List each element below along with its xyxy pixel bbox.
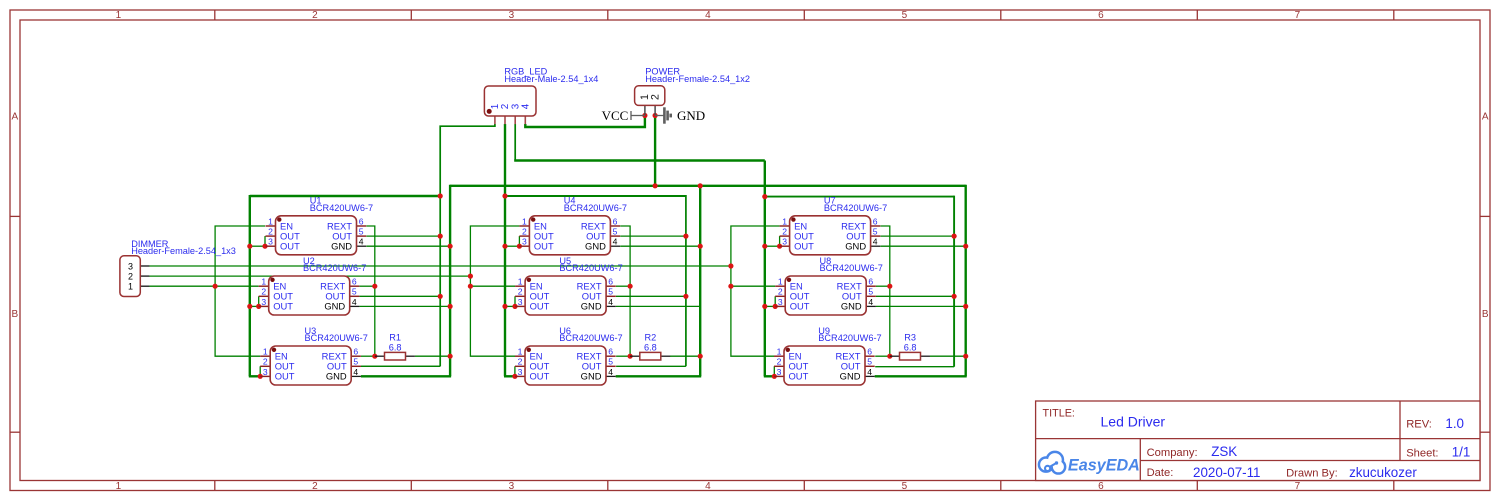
svg-text:6: 6 bbox=[353, 347, 358, 357]
wire R3 to col3 GND vertical bbox=[930, 355, 966, 357]
wire U3 REXT to R1 junction bbox=[361, 355, 375, 357]
wire net DIM2 col2 EN vertical bbox=[470, 226, 519, 356]
svg-text:2: 2 bbox=[263, 357, 268, 367]
junction at (764.8,306.4) bbox=[762, 304, 767, 309]
junction at (450.1,356.2) bbox=[448, 354, 453, 359]
svg-text:3: 3 bbox=[263, 367, 268, 377]
op-amp/driver IC U4 BCR420UW6-7 bbox=[519, 196, 627, 255]
svg-text:BCR420UW6-7: BCR420UW6-7 bbox=[303, 263, 366, 273]
wire net DIM3 from DIMMER pin3 bbox=[149, 265, 731, 267]
power flag VCC bbox=[602, 108, 645, 123]
svg-text:4: 4 bbox=[867, 367, 872, 377]
wire net LED2 corner to U6 pin5 bbox=[616, 365, 686, 367]
svg-text:3: 3 bbox=[509, 481, 515, 492]
junction at (889.8,286.2) bbox=[887, 284, 892, 289]
wire U4 GND pin to col2 GND bus bbox=[620, 245, 700, 247]
wire U5 pin3 to OUT bus bbox=[505, 305, 515, 307]
svg-text:GND: GND bbox=[331, 241, 352, 252]
wire U4 pin3 to OUT bus bbox=[505, 245, 519, 247]
svg-text:7: 7 bbox=[1295, 481, 1301, 492]
op-amp/driver IC U9 BCR420UW6-7 bbox=[774, 326, 882, 385]
wire U5 REXT to R2 vertical bbox=[616, 285, 630, 287]
svg-text:2: 2 bbox=[778, 287, 783, 297]
svg-text:7: 7 bbox=[1295, 10, 1301, 21]
svg-text:OUT: OUT bbox=[275, 371, 295, 382]
junction at (249.8,246.2) bbox=[247, 244, 252, 249]
svg-text:3: 3 bbox=[518, 297, 523, 307]
svg-text:1: 1 bbox=[777, 347, 782, 357]
junction at (440.2,296.3) bbox=[438, 294, 443, 299]
svg-text:OUT: OUT bbox=[534, 241, 554, 252]
svg-text:2: 2 bbox=[522, 227, 527, 237]
junction at (889.8,356.2) bbox=[887, 354, 892, 359]
wire U6 pin2-pin3 tie bbox=[514, 366, 516, 376]
wire net GND col1 vertical bbox=[449, 185, 451, 376]
wire net LED1 col1 OUT bus to U3 bracket bbox=[249, 375, 260, 377]
svg-text:Header-Male-2.54_1x4: Header-Male-2.54_1x4 bbox=[504, 74, 598, 84]
op-amp/driver IC U7 BCR420UW6-7 bbox=[780, 196, 888, 255]
svg-text:GND: GND bbox=[841, 301, 862, 312]
svg-text:2: 2 bbox=[518, 287, 523, 297]
svg-text:5: 5 bbox=[359, 227, 364, 237]
junction at (775.2,306.4) bbox=[773, 304, 778, 309]
svg-text:OUT: OUT bbox=[789, 371, 809, 382]
svg-text:6.8: 6.8 bbox=[389, 343, 402, 353]
svg-text:Header-Female-2.54_1x3: Header-Female-2.54_1x3 bbox=[131, 246, 236, 256]
svg-text:6.8: 6.8 bbox=[904, 343, 917, 353]
wire net DIM1 col1 EN vertical bbox=[215, 226, 265, 356]
svg-text:GND: GND bbox=[581, 371, 602, 382]
svg-text:1: 1 bbox=[261, 277, 266, 287]
svg-text:4: 4 bbox=[608, 367, 613, 377]
connector DIMMER Header-Female-2.54_1x3 bbox=[120, 239, 236, 296]
junction at (515.0,306.4) bbox=[512, 304, 517, 309]
svg-text:5: 5 bbox=[902, 10, 908, 21]
svg-text:BCR420UW6-7: BCR420UW6-7 bbox=[305, 333, 368, 343]
wire net LED3 from RGB_LED pin3 down bbox=[514, 124, 516, 161]
svg-text:Led Driver: Led Driver bbox=[1101, 413, 1166, 429]
svg-text:5: 5 bbox=[608, 357, 613, 367]
wire U7 pin5 to LED3 vertical bbox=[880, 235, 954, 237]
wire net LED2 from RGB_LED pin2 down bbox=[504, 124, 506, 376]
wire net GND main bus bbox=[450, 185, 966, 187]
svg-text:GND: GND bbox=[326, 371, 347, 382]
svg-text:6: 6 bbox=[613, 216, 618, 226]
wire U5 pin5 to LED2 vertical bbox=[616, 295, 686, 297]
svg-text:Company:: Company: bbox=[1147, 447, 1198, 459]
junction at (505.0,196.0) bbox=[502, 193, 507, 198]
wire net LED1 top link col1 bbox=[250, 195, 441, 197]
wire net LED1 corner to U3 pin5 bbox=[361, 365, 441, 367]
svg-text:1: 1 bbox=[522, 216, 527, 226]
svg-text:2020-07-11: 2020-07-11 bbox=[1193, 465, 1261, 480]
svg-text:1: 1 bbox=[782, 216, 787, 226]
wire U7 REXT to R3 vertical bbox=[880, 226, 889, 356]
svg-text:4: 4 bbox=[873, 237, 878, 247]
junction at (514.9,376.3) bbox=[512, 374, 517, 379]
junction at (519.4,246.2) bbox=[517, 244, 522, 249]
wire net GND col3 bottom to U9 GND pin bbox=[875, 375, 967, 377]
svg-text:6: 6 bbox=[359, 216, 364, 226]
svg-text:GND: GND bbox=[581, 301, 602, 312]
svg-text:6: 6 bbox=[608, 347, 613, 357]
wire net GND drop from POWER pin2 bbox=[654, 116, 656, 186]
wire U7 pin2-pin3 tie bbox=[779, 236, 781, 246]
svg-text:5: 5 bbox=[868, 287, 873, 297]
svg-text:B: B bbox=[11, 309, 18, 320]
svg-text:6: 6 bbox=[1098, 481, 1104, 492]
svg-text:1: 1 bbox=[128, 282, 133, 292]
svg-text:4: 4 bbox=[359, 237, 364, 247]
svg-text:OUT: OUT bbox=[530, 301, 550, 312]
svg-text:GND: GND bbox=[324, 301, 345, 312]
svg-text:6: 6 bbox=[868, 277, 873, 287]
svg-text:6: 6 bbox=[352, 277, 357, 287]
wire U2 GND pin to col1 GND bus bbox=[360, 305, 451, 307]
svg-text:OUT: OUT bbox=[794, 241, 814, 252]
svg-text:BCR420UW6-7: BCR420UW6-7 bbox=[564, 203, 627, 213]
junction at (764.8,246.2) bbox=[762, 244, 767, 249]
wire net DIM1 from DIMMER pin1 to U2 EN bbox=[149, 285, 259, 287]
wire net LED2 top link col2 bbox=[505, 195, 686, 197]
wire net GND col3 vertical bbox=[965, 185, 967, 376]
svg-text:2: 2 bbox=[649, 94, 661, 100]
svg-text:OUT: OUT bbox=[790, 301, 810, 312]
wire U1 pin2-pin3 tie bbox=[264, 236, 266, 246]
wire U2 pin5 to LED1 vertical bbox=[360, 295, 441, 297]
junction at (700.2,185.8) bbox=[698, 183, 703, 188]
svg-text:Sheet:: Sheet: bbox=[1406, 448, 1438, 460]
svg-text:Drawn By:: Drawn By: bbox=[1286, 467, 1338, 479]
junction at (655.1,115.5) bbox=[653, 113, 658, 118]
junction at (260.2,376.3) bbox=[258, 374, 263, 379]
svg-text:2: 2 bbox=[782, 227, 787, 237]
op-amp/driver IC U5 BCR420UW6-7 bbox=[515, 256, 623, 315]
svg-text:3: 3 bbox=[518, 367, 523, 377]
wire U1 REXT to R1 vertical bbox=[366, 226, 375, 356]
op-amp/driver IC U3 BCR420UW6-7 bbox=[260, 326, 368, 385]
connector RGB_LED Header-Male-2.54_1x4 bbox=[484, 67, 598, 125]
wire net LED3 horizontal link bbox=[514, 159, 765, 161]
svg-text:2: 2 bbox=[268, 227, 273, 237]
svg-text:4: 4 bbox=[608, 297, 613, 307]
wire net LED3 corner to U9 pin5 bbox=[875, 366, 954, 368]
svg-text:4: 4 bbox=[353, 367, 358, 377]
wire U6 REXT to R2 junction bbox=[616, 355, 630, 357]
junction at (644.9,115.5) bbox=[642, 113, 647, 118]
wire net DIM3 col3 EN vertical bbox=[731, 226, 780, 356]
svg-text:1: 1 bbox=[518, 277, 523, 287]
wire U7 pin3 to OUT bus bbox=[765, 245, 780, 247]
wire net LED2 corner to U6 bracket bbox=[504, 375, 515, 377]
svg-text:5: 5 bbox=[873, 227, 878, 237]
junction at (730.9,286.2) bbox=[728, 284, 733, 289]
svg-text:4: 4 bbox=[705, 10, 711, 21]
svg-text:2: 2 bbox=[312, 10, 318, 21]
wire net GND col1 bottom to U3 GND pin bbox=[361, 375, 451, 377]
svg-text:ZSK: ZSK bbox=[1211, 444, 1237, 459]
wire U8 pin2-pin3 tie bbox=[774, 296, 776, 306]
svg-text:4: 4 bbox=[352, 297, 357, 307]
junction at (630.1,286.2) bbox=[628, 284, 633, 289]
wire net LED1 col1 OUT bus vertical bbox=[249, 195, 251, 376]
junction at (685.9,296.3) bbox=[683, 294, 688, 299]
resistor R1 6.8 bbox=[375, 333, 415, 360]
svg-text:3: 3 bbox=[268, 237, 273, 247]
connector POWER Header-Female-2.54_1x2 bbox=[635, 67, 750, 116]
wire net DIM3 branch to U8 EN bbox=[731, 285, 775, 287]
svg-text:4: 4 bbox=[868, 297, 873, 307]
svg-text:2: 2 bbox=[518, 357, 523, 367]
junction at (774.3,376.3) bbox=[772, 374, 777, 379]
wire U7 GND pin to col3 GND bus bbox=[880, 245, 965, 247]
wire U4 REXT to R2 vertical bbox=[620, 226, 630, 356]
svg-text:Date:: Date: bbox=[1147, 467, 1174, 479]
junction at (630.1,356.2) bbox=[628, 354, 633, 359]
svg-text:3: 3 bbox=[777, 367, 782, 377]
wire U8 REXT to R3 vertical bbox=[876, 285, 890, 287]
junction at (764.8,196.6) bbox=[762, 194, 767, 199]
junction at (655.1,185.8) bbox=[653, 183, 658, 188]
junction at (779.6,246.2) bbox=[777, 244, 782, 249]
svg-text:5: 5 bbox=[353, 357, 358, 367]
svg-text:1: 1 bbox=[263, 347, 268, 357]
svg-text:GND: GND bbox=[840, 371, 861, 382]
wire net LED3 col3 pin5 vertical bbox=[953, 196, 955, 367]
svg-text:1.0: 1.0 bbox=[1445, 416, 1464, 431]
junction at (374.8,356.2) bbox=[372, 354, 377, 359]
wire net LED3 corner to U9 bracket bbox=[764, 375, 775, 377]
svg-text:zkucukozer: zkucukozer bbox=[1349, 465, 1417, 480]
svg-text:5: 5 bbox=[613, 227, 618, 237]
svg-text:A: A bbox=[1482, 112, 1489, 123]
svg-text:6: 6 bbox=[873, 216, 878, 226]
svg-text:TITLE:: TITLE: bbox=[1043, 408, 1075, 420]
svg-text:1: 1 bbox=[518, 347, 523, 357]
wire net VCC from RGB_LED pin4 to POWER pin1 bbox=[525, 116, 645, 128]
wire U1 GND pin to col1 GND bus bbox=[366, 245, 450, 247]
junction at (685.9,236.1) bbox=[683, 234, 688, 239]
wire U4 pin2-pin3 tie bbox=[518, 236, 520, 246]
svg-text:2: 2 bbox=[261, 287, 266, 297]
resistor R3 6.8 bbox=[890, 333, 930, 360]
svg-text:3: 3 bbox=[782, 237, 787, 247]
svg-text:GND: GND bbox=[845, 241, 866, 252]
svg-text:BCR420UW6-7: BCR420UW6-7 bbox=[820, 263, 883, 273]
junction at (954.1,296.3) bbox=[952, 294, 957, 299]
svg-text:6: 6 bbox=[608, 277, 613, 287]
junction at (450.1,246.2) bbox=[448, 244, 453, 249]
svg-text:4: 4 bbox=[705, 481, 711, 492]
junction at (265.0,246.2) bbox=[262, 244, 267, 249]
svg-text:5: 5 bbox=[902, 481, 908, 492]
svg-text:1: 1 bbox=[116, 10, 122, 21]
wire R2 to col2 GND vertical bbox=[670, 355, 700, 357]
junction at (470.4,286.2) bbox=[468, 284, 473, 289]
junction at (965.7,356.2) bbox=[963, 354, 968, 359]
junction at (470.4,276.1) bbox=[468, 274, 473, 279]
svg-text:3: 3 bbox=[509, 10, 515, 21]
svg-text:B: B bbox=[1482, 309, 1489, 320]
svg-text:BCR420UW6-7: BCR420UW6-7 bbox=[559, 263, 622, 273]
svg-text:6: 6 bbox=[867, 347, 872, 357]
wire U4 pin5 to LED2 vertical bbox=[620, 235, 686, 237]
svg-text:Header-Female-2.54_1x2: Header-Female-2.54_1x2 bbox=[645, 74, 750, 84]
svg-text:BCR420UW6-7: BCR420UW6-7 bbox=[824, 203, 887, 213]
svg-text:1: 1 bbox=[268, 216, 273, 226]
wire net DIM2 from DIMMER pin2 bbox=[149, 275, 470, 277]
resistor R2 6.8 bbox=[630, 333, 670, 360]
svg-text:OUT: OUT bbox=[280, 241, 300, 252]
svg-text:3: 3 bbox=[778, 297, 783, 307]
svg-text:R2: R2 bbox=[645, 333, 657, 343]
svg-text:1: 1 bbox=[116, 481, 122, 492]
svg-text:2: 2 bbox=[128, 271, 133, 281]
wire U2 pin2-pin3 tie bbox=[258, 296, 260, 306]
svg-text:4: 4 bbox=[613, 237, 618, 247]
svg-text:5: 5 bbox=[608, 287, 613, 297]
wire U2 REXT to R1 vertical bbox=[360, 285, 375, 287]
op-amp/driver IC U6 BCR420UW6-7 bbox=[515, 326, 623, 385]
svg-text:6: 6 bbox=[1098, 10, 1104, 21]
svg-text:GND: GND bbox=[677, 108, 705, 123]
svg-text:5: 5 bbox=[352, 287, 357, 297]
wire net LED1 from RGB_LED pin1 down-left bbox=[440, 124, 495, 366]
wire U1 pin5 to LED1 vertical bbox=[366, 235, 440, 237]
wire U1 pin3 to OUT bus bbox=[250, 245, 265, 247]
ground symbol GND bbox=[655, 107, 705, 123]
svg-text:A: A bbox=[11, 112, 18, 123]
svg-text:3: 3 bbox=[522, 237, 527, 247]
op-amp/driver IC U8 BCR420UW6-7 bbox=[775, 256, 883, 315]
op-amp/driver IC U2 BCR420UW6-7 bbox=[259, 256, 367, 315]
junction at (700.2,246.2) bbox=[698, 244, 703, 249]
svg-text:4: 4 bbox=[521, 103, 532, 109]
junction at (730.9,266.0) bbox=[728, 263, 733, 268]
svg-text:3: 3 bbox=[128, 261, 133, 271]
svg-text:R1: R1 bbox=[389, 333, 401, 343]
junction at (374.8,286.2) bbox=[372, 284, 377, 289]
svg-text:1/1: 1/1 bbox=[1452, 445, 1471, 460]
op-amp/driver IC U1 BCR420UW6-7 bbox=[266, 196, 374, 255]
wire U3 pin5 to LED1 vertical bbox=[361, 365, 440, 367]
wire U2 pin3 to OUT bus bbox=[250, 305, 259, 307]
svg-text:REV:: REV: bbox=[1406, 419, 1432, 431]
wire U9 pin2-pin3 tie bbox=[773, 366, 775, 376]
svg-text:R3: R3 bbox=[904, 333, 916, 343]
junction at (505.0,306.4) bbox=[502, 304, 507, 309]
svg-text:VCC: VCC bbox=[602, 108, 629, 123]
wire net GND col2 bottom to U6 GND pin bbox=[616, 375, 702, 377]
junction at (965.7,246.2) bbox=[963, 244, 968, 249]
svg-text:3: 3 bbox=[261, 297, 266, 307]
junction at (249.8,306.4) bbox=[247, 304, 252, 309]
junction at (505.0,246.2) bbox=[502, 244, 507, 249]
svg-text:6.8: 6.8 bbox=[644, 343, 657, 353]
wire net DIM2 branch to U5 EN bbox=[470, 285, 515, 287]
wire net LED3 col3 OUT vertical bbox=[764, 161, 766, 377]
wire net GND col2 vertical bbox=[699, 185, 701, 376]
svg-text:GND: GND bbox=[585, 241, 606, 252]
junction at (258.7,306.4) bbox=[256, 304, 261, 309]
junction at (215.1,286.2) bbox=[213, 284, 218, 289]
wire U9 REXT to R3 junction bbox=[875, 355, 890, 357]
wire R1 to col1 GND vertical bbox=[415, 355, 450, 357]
wire U8 pin5 to LED3 vertical bbox=[876, 295, 954, 297]
wire U8 pin3 to OUT bus bbox=[765, 305, 775, 307]
junction at (440.2,196.0) bbox=[438, 193, 443, 198]
title block bbox=[1036, 401, 1480, 481]
wire net LED3 link at y196.6 bbox=[765, 196, 954, 198]
wire U8 GND pin to col3 GND bus bbox=[876, 305, 966, 307]
svg-text:OUT: OUT bbox=[273, 301, 293, 312]
svg-text:2: 2 bbox=[312, 481, 318, 492]
svg-text:BCR420UW6-7: BCR420UW6-7 bbox=[559, 333, 622, 343]
svg-text:5: 5 bbox=[867, 357, 872, 367]
junction at (440.2,236.1) bbox=[438, 234, 443, 239]
junction at (450.1,306.4) bbox=[448, 304, 453, 309]
junction at (954.1,236.1) bbox=[952, 234, 957, 239]
wire U3 pin2-pin3 tie bbox=[259, 366, 261, 376]
wire U5 pin2-pin3 tie bbox=[514, 296, 516, 306]
svg-text:EasyEDA: EasyEDA bbox=[1068, 457, 1140, 475]
svg-text:BCR420UW6-7: BCR420UW6-7 bbox=[818, 333, 881, 343]
wire net LED2 col2 pin5 vertical bbox=[685, 195, 687, 366]
svg-text:BCR420UW6-7: BCR420UW6-7 bbox=[310, 203, 373, 213]
svg-text:2: 2 bbox=[777, 357, 782, 367]
svg-text:OUT: OUT bbox=[530, 371, 550, 382]
svg-text:1: 1 bbox=[778, 277, 783, 287]
wire U5 GND pin to col2 GND bus bbox=[616, 305, 700, 307]
junction at (700.2,356.2) bbox=[698, 354, 703, 359]
junction at (965.7,306.4) bbox=[963, 304, 968, 309]
